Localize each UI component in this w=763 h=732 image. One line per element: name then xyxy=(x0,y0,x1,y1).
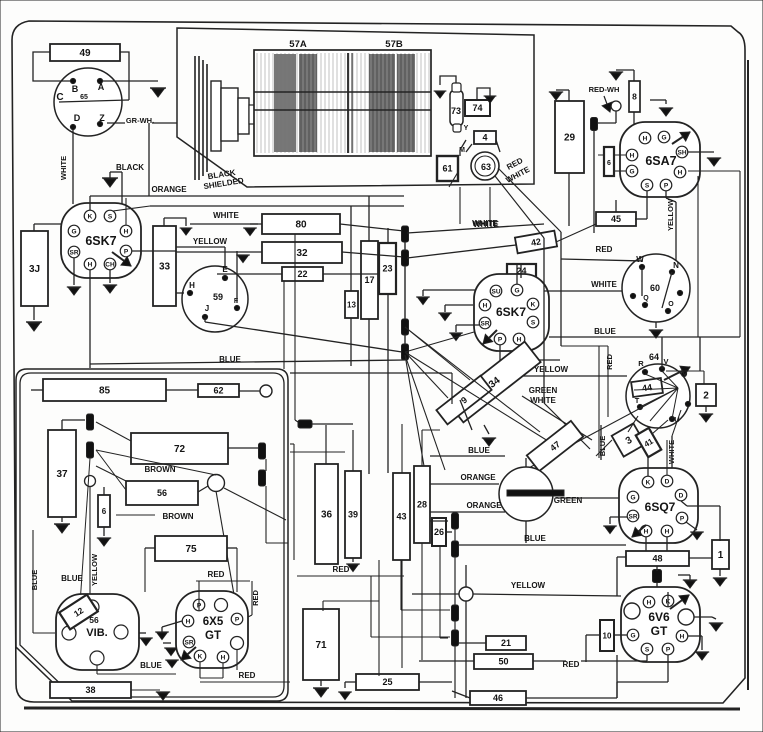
svg-text:H: H xyxy=(189,281,195,290)
svg-text:W: W xyxy=(636,255,644,264)
svg-text:O: O xyxy=(668,301,674,308)
svg-text:H: H xyxy=(680,633,685,640)
svg-text:H: H xyxy=(124,228,129,235)
svg-text:21: 21 xyxy=(501,638,511,648)
svg-text:44: 44 xyxy=(641,382,652,393)
svg-text:H: H xyxy=(88,261,93,268)
svg-text:K: K xyxy=(531,301,536,308)
svg-text:P: P xyxy=(680,515,685,522)
svg-text:85: 85 xyxy=(99,386,111,397)
svg-text:26: 26 xyxy=(434,527,444,537)
svg-text:G: G xyxy=(514,287,519,294)
svg-text:G: G xyxy=(630,494,635,501)
svg-text:S: S xyxy=(108,213,113,220)
svg-text:63: 63 xyxy=(481,162,491,172)
svg-text:Y: Y xyxy=(464,125,469,132)
svg-text:CH: CH xyxy=(105,261,115,268)
svg-text:K: K xyxy=(198,653,203,660)
svg-text:72: 72 xyxy=(174,444,186,455)
svg-text:BLUE: BLUE xyxy=(30,570,39,590)
svg-text:49: 49 xyxy=(79,48,91,59)
svg-text:H: H xyxy=(517,336,522,343)
svg-text:75: 75 xyxy=(185,544,197,555)
svg-text:74: 74 xyxy=(472,103,482,113)
svg-text:RED: RED xyxy=(333,565,350,574)
svg-text:SR: SR xyxy=(69,249,78,256)
svg-text:S: S xyxy=(645,182,650,189)
svg-text:GREEN: GREEN xyxy=(529,386,558,395)
svg-text:71: 71 xyxy=(315,640,327,651)
svg-text:6SQ7: 6SQ7 xyxy=(645,500,676,514)
svg-text:59: 59 xyxy=(213,292,223,302)
svg-text:P: P xyxy=(666,646,671,653)
svg-text:6X5: 6X5 xyxy=(203,616,224,628)
svg-text:P: P xyxy=(235,616,240,623)
svg-text:H: H xyxy=(221,654,226,661)
svg-text:4: 4 xyxy=(482,133,487,143)
svg-text:6: 6 xyxy=(607,160,611,167)
svg-text:37: 37 xyxy=(56,469,68,480)
svg-text:YELLOW: YELLOW xyxy=(666,198,675,231)
svg-text:3J: 3J xyxy=(29,264,40,275)
svg-text:G: G xyxy=(629,168,634,175)
svg-text:66: 66 xyxy=(653,575,661,582)
svg-text:29: 29 xyxy=(564,133,576,144)
svg-text:RED: RED xyxy=(596,245,613,254)
svg-text:SH: SH xyxy=(677,149,686,156)
svg-text:YELLOW: YELLOW xyxy=(193,237,228,246)
svg-text:GT: GT xyxy=(651,624,668,638)
svg-text:23: 23 xyxy=(382,264,392,274)
svg-text:60: 60 xyxy=(650,283,660,293)
svg-text:D: D xyxy=(665,478,670,485)
svg-text:G: G xyxy=(661,134,666,141)
svg-text:H: H xyxy=(644,528,649,535)
svg-text:SR: SR xyxy=(628,513,637,520)
svg-text:61: 61 xyxy=(442,164,452,174)
svg-text:E: E xyxy=(222,265,228,274)
svg-text:BLUE: BLUE xyxy=(61,574,83,583)
svg-text:39: 39 xyxy=(348,510,358,520)
svg-text:K: K xyxy=(646,479,651,486)
svg-text:22: 22 xyxy=(297,269,307,279)
svg-text:BROWN: BROWN xyxy=(144,465,175,474)
svg-text:BLUE: BLUE xyxy=(219,355,241,364)
svg-text:25: 25 xyxy=(382,677,392,687)
svg-text:C: C xyxy=(56,92,63,103)
svg-text:45: 45 xyxy=(611,214,621,224)
svg-text:17: 17 xyxy=(364,275,374,285)
svg-text:46: 46 xyxy=(493,693,503,703)
svg-text:57A: 57A xyxy=(289,39,307,50)
svg-text:H: H xyxy=(647,599,652,606)
svg-text:62: 62 xyxy=(213,386,223,396)
svg-text:8: 8 xyxy=(632,92,637,102)
svg-text:RED: RED xyxy=(239,671,256,680)
svg-text:36: 36 xyxy=(321,510,333,521)
svg-text:56: 56 xyxy=(157,488,167,498)
svg-text:1: 1 xyxy=(718,550,724,561)
svg-text:WHITE: WHITE xyxy=(59,156,68,180)
svg-text:6V6: 6V6 xyxy=(648,610,670,624)
svg-text:WHITE: WHITE xyxy=(472,219,498,228)
svg-text:2: 2 xyxy=(703,391,709,402)
svg-text:BLUE: BLUE xyxy=(594,327,616,336)
svg-text:WHITE: WHITE xyxy=(591,280,617,289)
svg-text:S: S xyxy=(531,319,536,326)
svg-text:G: G xyxy=(630,632,635,639)
svg-text:RED-WH: RED-WH xyxy=(589,85,620,94)
svg-text:38: 38 xyxy=(85,685,95,695)
svg-text:43: 43 xyxy=(396,512,406,522)
svg-text:S: S xyxy=(645,646,650,653)
svg-text:BLACK: BLACK xyxy=(116,163,144,172)
svg-text:RED: RED xyxy=(208,570,225,579)
svg-text:BLUE: BLUE xyxy=(524,534,546,543)
svg-text:Q: Q xyxy=(643,295,649,302)
svg-text:YELLOW: YELLOW xyxy=(90,553,99,586)
svg-text:42: 42 xyxy=(530,236,542,248)
svg-text:GT: GT xyxy=(205,630,221,642)
svg-text:6SK7: 6SK7 xyxy=(85,234,116,248)
svg-text:P: P xyxy=(664,182,669,189)
svg-text:A: A xyxy=(98,82,105,92)
svg-text:6SK7: 6SK7 xyxy=(496,305,526,319)
svg-text:N: N xyxy=(673,261,679,270)
svg-text:ORANGE: ORANGE xyxy=(460,473,496,482)
svg-text:ORANGE: ORANGE xyxy=(151,185,187,194)
svg-text:H: H xyxy=(483,302,488,309)
svg-text:80: 80 xyxy=(295,220,307,231)
svg-text:RED: RED xyxy=(605,354,614,370)
svg-text:ORANGE: ORANGE xyxy=(466,501,502,510)
svg-text:GR-WH.: GR-WH. xyxy=(126,116,154,125)
svg-text:65: 65 xyxy=(80,94,88,101)
svg-text:SR: SR xyxy=(184,639,193,646)
svg-text:BLUE: BLUE xyxy=(140,661,162,670)
svg-text:SU: SU xyxy=(491,288,500,295)
svg-text:H: H xyxy=(186,618,191,625)
svg-text:WHITE: WHITE xyxy=(213,211,239,220)
svg-text:13: 13 xyxy=(347,300,356,309)
svg-text:10: 10 xyxy=(603,631,612,640)
svg-text:YELLOW: YELLOW xyxy=(511,581,546,590)
svg-text:BROWN: BROWN xyxy=(162,512,193,521)
svg-text:P: P xyxy=(124,248,129,255)
svg-text:K: K xyxy=(88,213,93,220)
svg-text:33: 33 xyxy=(159,262,171,273)
svg-text:H: H xyxy=(665,528,670,535)
svg-text:6SA7: 6SA7 xyxy=(645,154,676,168)
svg-text:B: B xyxy=(72,84,79,94)
svg-text:6: 6 xyxy=(102,507,107,516)
svg-text:YELLOW: YELLOW xyxy=(534,365,569,374)
svg-text:48: 48 xyxy=(652,554,662,564)
svg-text:Z: Z xyxy=(99,113,105,123)
svg-text:H: H xyxy=(643,135,648,142)
svg-text:VIB.: VIB. xyxy=(86,627,107,639)
svg-text:G: G xyxy=(71,228,76,235)
svg-text:28: 28 xyxy=(417,500,427,510)
svg-text:64: 64 xyxy=(649,352,659,362)
svg-text:D: D xyxy=(679,492,684,499)
svg-text:H: H xyxy=(630,152,635,159)
svg-text:73: 73 xyxy=(451,106,461,116)
svg-text:J: J xyxy=(205,304,209,313)
svg-text:50: 50 xyxy=(498,657,508,667)
svg-text:57B: 57B xyxy=(385,39,403,50)
svg-text:BLUE: BLUE xyxy=(468,446,490,455)
svg-text:H: H xyxy=(678,169,683,176)
svg-text:V: V xyxy=(663,357,668,366)
svg-text:R: R xyxy=(638,359,644,368)
svg-text:T: T xyxy=(635,396,640,405)
svg-text:32: 32 xyxy=(296,248,308,259)
svg-text:D: D xyxy=(74,113,81,123)
svg-text:P: P xyxy=(498,336,503,343)
svg-text:SR: SR xyxy=(480,320,489,327)
